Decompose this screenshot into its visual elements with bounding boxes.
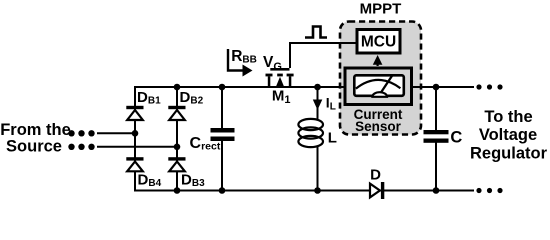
svg-text:L: L — [328, 130, 337, 147]
svg-text:Sensor: Sensor — [355, 119, 402, 134]
svg-text:C: C — [450, 128, 462, 146]
svg-text:MPPT: MPPT — [360, 1, 402, 18]
svg-text:Voltage: Voltage — [479, 126, 537, 144]
svg-text:D: D — [370, 166, 381, 183]
svg-text:Source: Source — [6, 137, 62, 155]
svg-text:MCU: MCU — [361, 34, 396, 51]
svg-text:Regulator: Regulator — [470, 145, 548, 163]
svg-text:To the: To the — [484, 108, 532, 126]
